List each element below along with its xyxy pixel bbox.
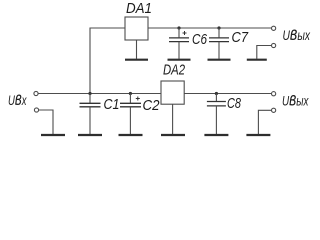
node terminal Uвх (+): [34, 91, 38, 95]
ground (bottom output terminal): [246, 134, 270, 136]
node junction C7 on top rail: [217, 26, 220, 29]
svg-text:C1: C1: [104, 96, 120, 113]
svg-text:Uвых: Uвых: [283, 23, 311, 45]
ground (DA2): [161, 134, 185, 136]
ground (C7): [208, 59, 231, 61]
capacitor C1: [80, 94, 101, 135]
svg-text:Uвых: Uвых: [282, 89, 309, 111]
svg-text:C2: C2: [143, 97, 161, 114]
capacitor C7: [209, 28, 229, 59]
wire input ground lead: [39, 110, 53, 134]
wire DA1 ground pin: [136, 40, 138, 59]
capacitor C8: [207, 94, 226, 135]
ground (C1): [78, 134, 102, 136]
wire input bus (Uвх terminal to DA2 input): [38, 93, 161, 95]
node junction C8 on DA2 output rail: [215, 92, 218, 95]
wire top output ground lead: [257, 46, 272, 59]
node terminal Uвх (ground side): [34, 108, 38, 112]
wire DA2 ground pin: [172, 104, 174, 134]
node junction DA1 branch / C1 on input bus: [88, 92, 91, 95]
wire DA1 input riser (vertical from input bus up to DA1 level): [89, 28, 91, 94]
node terminal Uвых top (+): [272, 26, 276, 30]
node terminal Uвых bottom (+): [272, 92, 276, 96]
regulator DA2 box: [161, 81, 184, 104]
svg-text:Uвх: Uвх: [8, 88, 27, 110]
svg-text:DA1: DA1: [126, 0, 152, 17]
regulator DA1 box: [125, 17, 148, 40]
ground (C2): [119, 134, 143, 136]
ground (C6): [168, 59, 191, 61]
svg-text:C6: C6: [192, 31, 208, 48]
node junction C2 on input bus: [129, 92, 132, 95]
svg-text:C8: C8: [227, 95, 241, 112]
wire top output rail (DA1 output to Uвых terminal): [148, 27, 271, 29]
wire DA2 output rail (DA2 to bottom Uвых terminal): [184, 93, 271, 95]
wire DA1 input (horizontal from corner to DA1 left pin): [90, 27, 125, 29]
svg-text:DA2: DA2: [163, 62, 185, 79]
svg-text:C7: C7: [232, 29, 249, 46]
ground (C8): [204, 134, 228, 136]
node terminal Uвых top (ground side): [272, 43, 276, 47]
capacitor C2 (polarized): [120, 94, 141, 135]
ground (DA1): [125, 59, 148, 61]
capacitor C6 (polarized): [169, 28, 189, 59]
wire bottom output ground lead: [258, 110, 271, 134]
ground (input terminal): [41, 134, 65, 136]
node terminal Uвых bottom (ground side): [272, 108, 276, 112]
node junction C6 on top rail: [177, 26, 180, 29]
ground (top output terminal): [247, 59, 267, 61]
